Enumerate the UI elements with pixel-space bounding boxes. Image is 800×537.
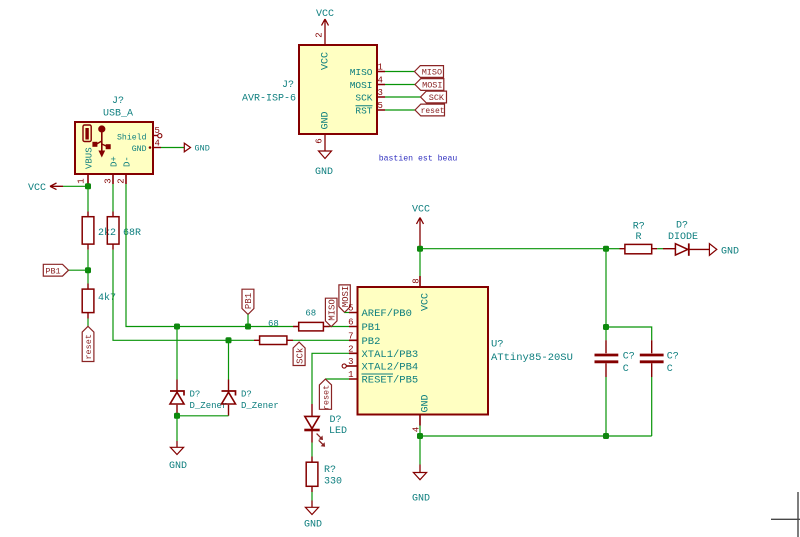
svg-text:J?: J? bbox=[112, 96, 124, 107]
wire MOSI to chip pin5 bbox=[345, 312, 349, 314]
node GND junction bbox=[417, 433, 423, 439]
svg-text:MOSI: MOSI bbox=[422, 81, 442, 91]
svg-text:D?: D? bbox=[330, 415, 342, 426]
wire D- to PB1 row bbox=[126, 184, 293, 327]
wire LED to R330 bbox=[311, 443, 313, 457]
pin stubs ISP right bbox=[377, 72, 385, 111]
svg-text:VCC: VCC bbox=[28, 183, 46, 194]
connector J2 body bbox=[75, 122, 153, 174]
svg-text:5: 5 bbox=[155, 126, 160, 136]
svg-text:2: 2 bbox=[315, 32, 325, 37]
svg-text:reset: reset bbox=[84, 334, 94, 360]
svg-text:D-: D- bbox=[123, 156, 133, 167]
svg-text:GND: GND bbox=[421, 394, 432, 412]
global label MOSI (vertical) bbox=[339, 285, 351, 313]
svg-text:D+: D+ bbox=[110, 156, 120, 167]
svg-text:PB2: PB2 bbox=[362, 336, 381, 348]
global label PB1 (vertical above wire) bbox=[242, 289, 254, 314]
wire to PB1 junction bbox=[87, 250, 89, 270]
power VCC (left) bbox=[28, 183, 63, 194]
capacitor C? C 2 bbox=[640, 340, 679, 377]
wire pin1 to MISO label bbox=[385, 71, 415, 73]
wire junction VBUS to VCC bbox=[63, 185, 88, 187]
svg-text:C?: C? bbox=[667, 351, 679, 362]
wire zener bottoms bbox=[177, 416, 229, 441]
USB icon trident bbox=[92, 125, 110, 157]
ground (ISP) bbox=[315, 151, 333, 178]
diode D? D_Zener 2 bbox=[222, 380, 279, 416]
wire pin3 to SCK label bbox=[385, 96, 421, 98]
svg-text:USB_A: USB_A bbox=[103, 109, 133, 120]
ground (chip) bbox=[412, 465, 430, 505]
svg-text:GND: GND bbox=[304, 520, 322, 531]
wire 68 to chip pin7 bbox=[293, 339, 349, 341]
svg-text:Shield: Shield bbox=[117, 133, 147, 143]
pin 8 stub bbox=[419, 276, 421, 287]
power VCC (top of ISP) bbox=[316, 9, 334, 45]
node PB1 junction bbox=[85, 267, 91, 273]
svg-text:3: 3 bbox=[104, 178, 114, 183]
wire pin5 to reset label bbox=[385, 109, 415, 111]
svg-text:R?: R? bbox=[324, 465, 336, 476]
svg-text:bastien est beau: bastien est beau bbox=[379, 154, 458, 164]
svg-text:GND: GND bbox=[721, 246, 739, 257]
svg-text:1: 1 bbox=[77, 178, 87, 183]
wire pin1 RESET to reset label bbox=[325, 378, 349, 380]
svg-text:8: 8 bbox=[412, 278, 422, 283]
node right VCC junction bbox=[603, 246, 609, 252]
svg-text:MOSI: MOSI bbox=[350, 80, 373, 91]
svg-text:SCK: SCK bbox=[355, 92, 372, 103]
svg-text:RST: RST bbox=[355, 105, 372, 116]
global label MISO (vertical) bbox=[325, 298, 337, 327]
svg-text:MISO: MISO bbox=[422, 68, 442, 78]
wire caps top bridge bbox=[606, 327, 652, 340]
node zener1 junction bbox=[174, 324, 180, 330]
wire D+ down bbox=[112, 184, 114, 212]
ground (right of USB) bbox=[184, 143, 210, 154]
svg-text:6: 6 bbox=[315, 138, 325, 143]
diode D? DIODE bbox=[663, 221, 709, 256]
svg-text:PB1: PB1 bbox=[45, 266, 60, 276]
node PB1 label junction bbox=[245, 324, 251, 330]
resistor R? 330 bbox=[306, 457, 342, 493]
svg-text:PB1: PB1 bbox=[244, 293, 254, 309]
resistor R 4k7 bbox=[82, 284, 116, 319]
pin 4 stub bbox=[419, 415, 421, 426]
svg-text:DIODE: DIODE bbox=[668, 232, 698, 243]
capacitor C? C 1 bbox=[595, 327, 635, 377]
svg-text:reset: reset bbox=[421, 107, 445, 116]
svg-text:68: 68 bbox=[305, 308, 316, 318]
op-amp U1 bbox=[299, 45, 377, 134]
wire 68 to chip pin6 bbox=[330, 326, 350, 328]
wire PB1 label stub bbox=[247, 314, 249, 326]
svg-text:GND: GND bbox=[195, 144, 210, 154]
wire VCC junction to chip bbox=[419, 249, 421, 276]
wire PB1 label to junction bbox=[69, 269, 89, 271]
svg-text:GND: GND bbox=[169, 461, 187, 472]
pin 6 stub bbox=[324, 134, 326, 151]
svg-text:D_Zener: D_Zener bbox=[241, 401, 279, 411]
svg-text:reset: reset bbox=[322, 385, 332, 411]
IC U? ATtiny85 body bbox=[358, 287, 489, 415]
diode D? LED bbox=[304, 404, 347, 447]
wire VBUS down bbox=[87, 184, 89, 212]
resistor R 2k2 bbox=[82, 212, 116, 250]
wire R to diode bbox=[657, 248, 663, 250]
svg-text:D?: D? bbox=[676, 221, 688, 232]
global label reset (left, vertical) bbox=[82, 326, 94, 361]
svg-text:MISO: MISO bbox=[350, 67, 373, 78]
wire R330 to GND bbox=[311, 492, 313, 501]
resistor R? R bbox=[620, 222, 658, 254]
node zener bottoms junction bbox=[174, 413, 180, 419]
node caps bottom junction bbox=[603, 433, 609, 439]
wire caps bottoms bbox=[606, 377, 652, 436]
svg-text:R: R bbox=[635, 232, 641, 243]
svg-text:VBUS: VBUS bbox=[85, 147, 95, 169]
svg-text:C: C bbox=[667, 364, 673, 375]
svg-text:VCC: VCC bbox=[421, 293, 432, 311]
wire VCC junction to right bbox=[420, 248, 606, 250]
wire D+ to PB2 row bbox=[113, 250, 254, 340]
svg-text:MISO: MISO bbox=[327, 299, 337, 321]
svg-text:C: C bbox=[623, 364, 629, 375]
wire zener2 drop bbox=[228, 340, 230, 379]
ground (right, GND label) bbox=[709, 244, 739, 258]
svg-text:2: 2 bbox=[117, 178, 127, 183]
svg-text:LED: LED bbox=[329, 426, 347, 437]
svg-text:R?: R? bbox=[633, 222, 645, 233]
pin 3 stub + open circle bbox=[346, 365, 357, 367]
ground (LED) bbox=[304, 501, 322, 531]
global label MISO bbox=[415, 66, 444, 78]
wire 4k7 to reset label bbox=[87, 319, 89, 327]
global label MOSI bbox=[415, 79, 444, 91]
svg-text:GND: GND bbox=[315, 167, 333, 178]
svg-text:GND: GND bbox=[132, 145, 147, 154]
wire GND rail bottom bbox=[420, 435, 652, 437]
power VCC (chip) bbox=[412, 205, 430, 249]
wire pin4 to MOSI label bbox=[385, 84, 415, 86]
node VCC junction bbox=[417, 246, 423, 252]
svg-text:VCC: VCC bbox=[321, 52, 332, 70]
wire GND junction down bbox=[419, 436, 421, 465]
svg-text:C?: C? bbox=[623, 351, 635, 362]
svg-text:SCK: SCK bbox=[429, 93, 445, 103]
global label SCk (vertical below wire) bbox=[293, 342, 305, 365]
svg-text:D?: D? bbox=[241, 389, 252, 399]
wire pin2 XTAL1 to LED column bbox=[312, 353, 349, 404]
pin stubs chip left bbox=[349, 313, 358, 380]
global label reset (chip, vertical) bbox=[319, 379, 331, 410]
resistor 68 (PB2 row) bbox=[254, 319, 293, 344]
svg-text:AVR-ISP-6: AVR-ISP-6 bbox=[242, 94, 296, 105]
global label SCK bbox=[421, 91, 447, 103]
global label reset bbox=[415, 104, 445, 116]
resistor R 68R bbox=[107, 212, 141, 250]
pin stubs USB bottom bbox=[88, 174, 126, 184]
diode D? D_Zener 1 bbox=[170, 380, 227, 416]
svg-text:RESET/PB5: RESET/PB5 bbox=[362, 375, 419, 387]
node caps top junction bbox=[603, 324, 609, 330]
node zener2 junction bbox=[226, 337, 232, 343]
wire VCC down to caps bbox=[605, 249, 607, 327]
resistor 68 (PB1 row) bbox=[293, 308, 330, 331]
svg-text:SCk: SCk bbox=[295, 348, 305, 364]
node VBUS junction bbox=[85, 183, 91, 189]
svg-text:68: 68 bbox=[268, 319, 279, 329]
svg-text:VCC: VCC bbox=[412, 205, 430, 216]
svg-text:XTAL2/PB4: XTAL2/PB4 bbox=[362, 362, 419, 374]
wire junction to 4k7 bbox=[87, 270, 89, 283]
svg-text:U?: U? bbox=[491, 339, 504, 351]
svg-text:XTAL1/PB3: XTAL1/PB3 bbox=[362, 349, 419, 361]
svg-text:GND: GND bbox=[412, 494, 430, 505]
svg-text:D?: D? bbox=[190, 389, 201, 399]
wire pin4 to GND bbox=[161, 147, 184, 149]
svg-text:J?: J? bbox=[282, 80, 294, 91]
wire pin4 to GND junction bbox=[419, 426, 421, 437]
svg-text:330: 330 bbox=[324, 476, 342, 487]
wire to resistor R bbox=[606, 248, 620, 250]
USB icon receptacle bbox=[83, 125, 91, 142]
svg-text:GND: GND bbox=[321, 111, 332, 129]
global label PB1 bbox=[43, 264, 68, 276]
svg-text:PB1: PB1 bbox=[362, 322, 381, 334]
svg-text:VCC: VCC bbox=[316, 9, 334, 20]
wire zener1 drop bbox=[176, 327, 178, 380]
svg-text:ATtiny85-20SU: ATtiny85-20SU bbox=[491, 352, 573, 364]
ground (zeners) bbox=[169, 441, 187, 472]
svg-text:AREF/PB0: AREF/PB0 bbox=[362, 308, 412, 320]
sheet border crosshair bbox=[771, 492, 800, 537]
